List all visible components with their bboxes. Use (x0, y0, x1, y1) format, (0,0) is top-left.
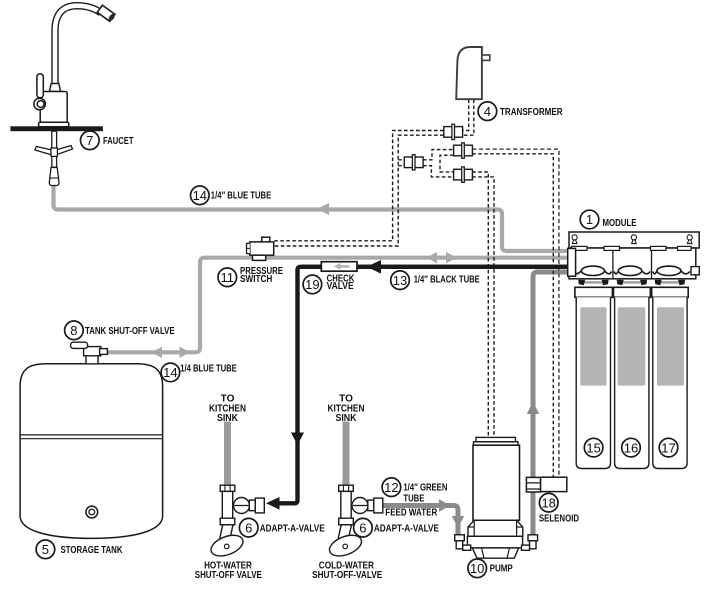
node label 15 filter (584, 438, 603, 457)
node label 16 filter (622, 438, 641, 457)
node label 13 black tube (391, 271, 480, 290)
connector D inline (454, 143, 473, 158)
svg-text:SHUT-OFF VALVE: SHUT-OFF VALVE (195, 570, 262, 581)
node label 18 selenoid (539, 493, 579, 524)
svg-text:1/4 BLUE TUBE: 1/4 BLUE TUBE (180, 364, 237, 375)
svg-text:11: 11 (221, 270, 235, 285)
counter top bar (10, 126, 103, 131)
faucet wing nut (35, 146, 73, 157)
pump right elbow fitting (522, 535, 538, 551)
svg-text:1/4″ BLACK TUBE: 1/4″ BLACK TUBE (414, 274, 480, 285)
node label 17 filter (659, 438, 678, 457)
svg-text:19: 19 (305, 277, 319, 292)
wire: transformer lead b (463, 100, 474, 136)
manifold head arc 2 (614, 266, 650, 275)
arrow on pump outlet tube pointing up (527, 402, 539, 415)
keyhole slot right (687, 235, 692, 244)
svg-text:10: 10 (470, 561, 484, 576)
arrow on black tube pointing left into hot valve (266, 497, 280, 510)
faucet 7 handle (34, 74, 46, 110)
node label 6 adapt-a-valve cold (354, 518, 440, 537)
node label to kitchen sink hot (209, 394, 246, 425)
node label 14 blue tube lower (161, 363, 237, 382)
svg-text:SWITCH: SWITCH (240, 274, 272, 285)
node label hot-water shut-off valve (195, 560, 262, 581)
svg-text:FAUCET: FAUCET (103, 136, 134, 147)
svg-text:SELENOID: SELENOID (539, 513, 579, 524)
svg-text:TANK SHUT-OFF VALVE: TANK SHUT-OFF VALVE (85, 326, 175, 337)
check valve 19 (321, 262, 357, 272)
keyhole slot left (572, 235, 577, 244)
svg-text:TRANSFORMER: TRANSFORMER (500, 107, 563, 118)
node label 8 tank shut-off valve (65, 321, 175, 340)
wire: cold supply stub tube (343, 422, 350, 487)
node label 12 green tube (382, 478, 447, 518)
arrow on black tube pointing left large (367, 260, 382, 274)
svg-text:14: 14 (163, 365, 177, 380)
svg-text:1: 1 (586, 212, 593, 227)
filter neck 2 (617, 280, 647, 285)
filter cartridge 16 (614, 287, 651, 468)
storage tank 5 body (20, 364, 163, 539)
wire: stub to connector B upper (398, 159, 404, 161)
svg-text:FEED WATER: FEED WATER (385, 507, 438, 518)
wire: connector A to pressure switch lead a (274, 131, 444, 241)
pump 10 base collar (467, 520, 522, 558)
svg-text:SINK: SINK (336, 413, 358, 424)
faucet shank below counter (52, 131, 57, 167)
svg-text:8: 8 (70, 323, 77, 338)
svg-text:1/4″ BLUE TUBE: 1/4″ BLUE TUBE (211, 191, 272, 202)
wire: black tube overdraw at wire crossings (302, 265, 570, 269)
arrow pair on blue tube near module (427, 252, 438, 263)
svg-text:STORAGE TANK: STORAGE TANK (61, 545, 124, 556)
svg-text:ADAPT-A-VALVE: ADAPT-A-VALVE (260, 523, 325, 534)
svg-text:16: 16 (624, 440, 638, 455)
wire: faucet blue tube (14) faucet to module (54, 185, 571, 251)
arrow on blue tube pointing left (317, 203, 329, 215)
svg-text:ADAPT-A-VALVE: ADAPT-A-VALVE (374, 523, 439, 534)
svg-text:5: 5 (42, 542, 49, 557)
faucet 7 body (39, 84, 69, 127)
pump left elbow fitting (455, 535, 471, 551)
node label 5 storage tank (36, 540, 123, 559)
wire: black tube (13) module to check valve to hot valve (276, 267, 570, 504)
wire: blue tube (14) module to pressure switch to tank (105, 258, 570, 353)
wire: connector C to pump lead b (472, 177, 494, 437)
arrow pair on blue tube near tank valve (152, 347, 163, 358)
manifold head arc 1 (571, 266, 612, 275)
wire: pump outlet tube to module (533, 272, 570, 535)
node label to kitchen sink cold (328, 394, 365, 425)
wire: connector D to selenoid lead b (472, 154, 553, 478)
keyhole slot middle (631, 235, 636, 244)
svg-text:1/4″ GREEN: 1/4″ GREEN (403, 482, 447, 493)
connector C inline (454, 167, 473, 182)
filter neck 3 (655, 280, 685, 285)
svg-text:6: 6 (245, 520, 252, 535)
module left port block (568, 248, 576, 276)
wire: connector B to connector D (423, 150, 454, 160)
wire: connector B to connector C (423, 166, 454, 177)
svg-text:17: 17 (661, 440, 675, 455)
svg-text:PUMP: PUMP (490, 564, 513, 575)
cold adapt-a-valve 6 (327, 485, 383, 560)
module 1 manifold (569, 246, 696, 278)
wire: connector D to connector C link (440, 155, 454, 172)
faucet 7 spout (55, 5, 116, 84)
faucet tube adapter (49, 168, 59, 186)
node label cold-water shut-off-valve (312, 560, 382, 581)
svg-text:SHUT-OFF-VALVE: SHUT-OFF-VALVE (312, 570, 382, 581)
svg-text:MODULE: MODULE (603, 218, 637, 229)
filter cartridge 17 (652, 287, 689, 468)
svg-text:7: 7 (86, 133, 93, 148)
hot adapt-a-valve 6 (208, 485, 264, 560)
svg-text:18: 18 (541, 495, 555, 510)
transformer 4 body (456, 47, 490, 99)
node label 14 blue tube upper (191, 186, 272, 205)
svg-text:12: 12 (384, 480, 398, 495)
node label 4 transformer (478, 102, 563, 121)
node label 11 pressure switch (218, 266, 283, 287)
arrow on green tube pointing right (439, 499, 451, 511)
tank shut-off valve 8 (71, 342, 108, 364)
svg-text:VALVE: VALVE (327, 281, 354, 292)
node label 7 faucet (81, 131, 134, 150)
filter neck 1 (578, 280, 608, 285)
module 1 mounting bracket (569, 232, 699, 248)
wire: connector C to pump lead a (472, 172, 488, 437)
wire: green tube (12) cold valve to pump (382, 506, 458, 537)
node label 10 pump (468, 559, 513, 578)
connector B inline (404, 155, 423, 170)
arrow on green tube pointing down (452, 516, 464, 528)
wire: stub to connector B lower (398, 165, 404, 167)
pump 10 body (473, 437, 520, 520)
manifold head arc 3 (653, 266, 690, 275)
module right port block (691, 267, 699, 275)
wire: connector A to pressure switch lead b (274, 135, 444, 246)
svg-text:4: 4 (484, 104, 491, 119)
node label 19 check valve (303, 274, 355, 294)
arrow on black tube pointing down (291, 433, 304, 446)
filter cartridge 15 (575, 287, 613, 468)
node label 1 module (580, 210, 637, 229)
wire: connector D to selenoid lead a gray (472, 149, 559, 477)
selenoid 18 (526, 477, 566, 492)
svg-text:15: 15 (586, 440, 600, 455)
wire: transformer lead a (463, 100, 469, 131)
svg-text:TUBE: TUBE (403, 493, 424, 504)
svg-text:14: 14 (193, 188, 207, 203)
connector A inline (444, 124, 463, 139)
pressure switch 11 (247, 237, 274, 260)
svg-text:SINK: SINK (217, 413, 239, 424)
svg-text:13: 13 (393, 273, 407, 288)
svg-text:6: 6 (359, 520, 366, 535)
node label 6 adapt-a-valve hot (239, 518, 325, 537)
wire: hot supply stub tube (224, 422, 231, 487)
